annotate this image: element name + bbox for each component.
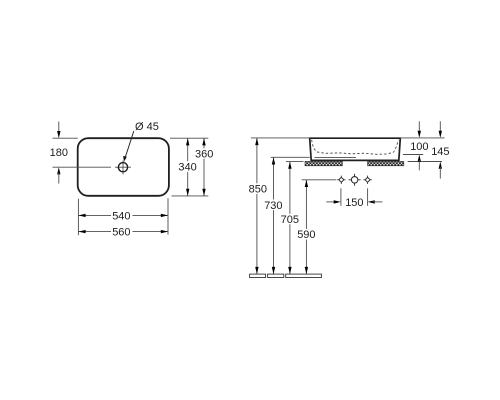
dimension 360 text [195, 148, 213, 160]
dimension 340 text [178, 161, 196, 173]
svg-text:150: 150 [345, 197, 363, 209]
dimension 150 right arrow [368, 200, 383, 203]
extension line top right of basin [170, 137, 208, 139]
faucet height reference line (590) [302, 179, 337, 181]
svg-text:590: 590 [297, 229, 315, 241]
wall faucet diamond right [363, 176, 371, 184]
inner depth extension line (100) [403, 154, 423, 156]
rim height reference line (850) [251, 137, 310, 139]
svg-text:540: 540 [112, 210, 130, 222]
dimension 180 top extension line [53, 137, 78, 139]
dimension 730 line [264, 157, 284, 274]
dimension 360 line [195, 138, 213, 196]
svg-text:340: 340 [178, 161, 196, 173]
svg-text:180: 180 [50, 147, 68, 159]
basin inner bottom solid line [315, 157, 357, 159]
dimension 100 upper arrow [418, 121, 421, 138]
floor line segment 2 [268, 274, 284, 277]
dimension 590 text [297, 229, 315, 241]
svg-text:360: 360 [195, 148, 213, 160]
wall faucet circle [349, 174, 361, 186]
floor line segment 1 [250, 274, 266, 277]
extension line bottom right (540/560) [167, 198, 169, 234]
dimension 180 upper arrow [57, 122, 60, 139]
dimension 560 text [112, 227, 130, 239]
extension line bottom left (540/560) [77, 199, 79, 236]
dimension 150 text [345, 197, 363, 209]
dimension 100 lower arrow [418, 155, 421, 171]
extension line bottom right of basin [172, 195, 209, 197]
dimension 340 line [178, 138, 198, 196]
floor line segment 3 [286, 274, 322, 277]
counter underside reference line (705) [286, 161, 304, 163]
dimension 590 line [297, 180, 317, 274]
wall faucet diamond left [337, 176, 345, 184]
dimension 180 lower arrow [57, 167, 60, 183]
top right extension line [400, 137, 444, 139]
basin inner bowl dashed contour [312, 140, 399, 155]
svg-text:145: 145 [431, 146, 449, 158]
dimension 145 text [431, 146, 449, 158]
svg-text:100: 100 [410, 141, 428, 153]
label Ø 45 [135, 121, 159, 133]
counter hatch left [305, 161, 342, 165]
dimension 145 upper arrow [439, 121, 442, 138]
faucet hole centerline vertical [122, 161, 124, 175]
dimension 540 text [112, 210, 130, 222]
dimension 100 text [410, 141, 428, 153]
leader line to faucet hole [123, 131, 134, 162]
dimension 150 left arrow [326, 200, 341, 203]
dimension 730 text [264, 200, 282, 212]
dimension 180 text [50, 147, 68, 159]
svg-text:850: 850 [249, 184, 267, 196]
svg-text:705: 705 [281, 214, 299, 226]
dimension 540 line [78, 210, 168, 221]
basin outline (top view rounded rectangle) [78, 138, 169, 196]
faucet hole circle [118, 163, 127, 172]
svg-text:Ø 45: Ø 45 [135, 121, 159, 133]
dimension 150 extension line right [367, 188, 369, 206]
counter top line [271, 156, 310, 158]
faucet hole centerline horizontal [53, 166, 131, 168]
dimension 850 line [248, 138, 268, 274]
svg-text:560: 560 [112, 227, 130, 239]
dimension 705 text [281, 214, 299, 226]
dimension 145 lower arrow [439, 162, 442, 179]
basin bottom extension line (145) [408, 161, 442, 163]
svg-text:730: 730 [264, 200, 282, 212]
dimension 560 line [78, 226, 168, 237]
dimension 150 extension line left [340, 188, 342, 206]
basin profile outline [310, 138, 401, 160]
dimension 705 line [280, 162, 300, 275]
dimension 850 text [249, 184, 267, 196]
counter hatch right [368, 161, 404, 165]
